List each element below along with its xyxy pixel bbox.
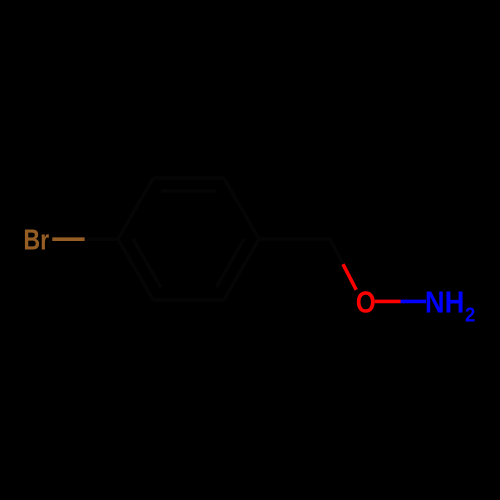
bond O-N (N half, blue) — [401, 300, 427, 304]
ring bond C5-C6 — [153, 298, 223, 302]
ring bond C4-C5 — [224, 239, 259, 300]
bond C4-C7 (benzylic) — [259, 237, 330, 241]
ring bond C3-C4 — [224, 178, 259, 239]
svg-text:O: O — [356, 286, 376, 319]
svg-text:NH: NH — [425, 286, 465, 319]
ring bond C2-C3 — [153, 176, 223, 180]
ring double bond C6-C1 inner — [133, 239, 161, 287]
bond Br-C1 (C half) — [85, 237, 118, 241]
bond Br-C1 (Br half) — [52, 237, 84, 241]
ring bond C1-C2 — [118, 178, 153, 239]
svg-text:Br: Br — [23, 225, 49, 257]
ring double bond C4-C5 inner — [216, 239, 244, 287]
bond C7-O (C half) — [330, 239, 343, 264]
bond C7-O (O half, red) — [343, 264, 356, 290]
svg-text:2: 2 — [465, 304, 475, 326]
ring bond C6-C1 — [118, 239, 153, 300]
ring double bond C2-C3 inner — [161, 189, 216, 193]
bond O-N (O half, red) — [375, 300, 401, 304]
